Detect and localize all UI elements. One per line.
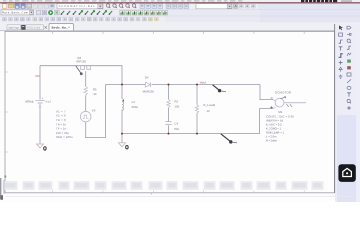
svg-text:Beds_Nu..*: Beds_Nu..*: [52, 26, 71, 30]
svg-text:A: A: [234, 5, 237, 9]
svg-text:500Vdc: 500Vdc: [25, 100, 34, 104]
svg-text:PCB.Cmd: PCB.Cmd: [27, 27, 41, 30]
svg-text:10: 10: [93, 92, 97, 96]
svg-text:Vs2: Vs2: [45, 100, 51, 104]
svg-text:C4: C4: [174, 122, 178, 126]
svg-text:V5: V5: [92, 108, 96, 112]
svg-text:SCHEMATIC1-Bas: SCHEMATIC1-Bas: [59, 5, 96, 8]
svg-text:Vout: Vout: [200, 81, 206, 85]
svg-text:500u: 500u: [132, 105, 139, 109]
svg-text:L4: L4: [132, 100, 136, 104]
svg-text:D4: D4: [145, 75, 149, 79]
svg-text:100: 100: [174, 104, 179, 108]
svg-text:M1: M1: [278, 110, 282, 114]
svg-text:PER = 100u: PER = 100u: [56, 135, 73, 139]
svg-text:MUR150: MUR150: [143, 90, 155, 94]
svg-text:R2: R2: [174, 100, 178, 104]
svg-text:50n: 50n: [174, 127, 179, 131]
svg-text:Rack_Basic_Com: Rack_Basic_Com: [2, 12, 29, 15]
svg-text:Vin: Vin: [35, 74, 40, 78]
svg-text:10: 10: [206, 109, 210, 113]
svg-text:IRF150: IRF150: [77, 60, 87, 64]
svg-text:R = 2ohm: R = 2ohm: [266, 139, 278, 143]
svg-text:Start Page: Start Page: [8, 27, 20, 30]
svg-text:DCMOTOR: DCMOTOR: [275, 91, 291, 95]
svg-text:R5: R5: [93, 87, 97, 91]
svg-text:R_Load2: R_Load2: [203, 103, 215, 107]
